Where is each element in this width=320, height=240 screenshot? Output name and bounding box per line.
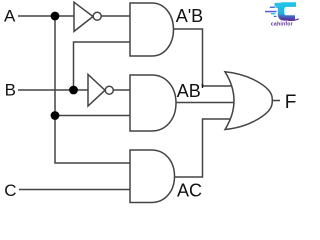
- watermark logo speed line 1b: [276, 7, 279, 8]
- junction dot on B wire: [69, 86, 78, 95]
- svg-text:A: A: [4, 7, 16, 26]
- wire AND2 output to OR middle input: [176, 102, 234, 104]
- svg-text:cahinfor: cahinfor: [271, 22, 293, 28]
- watermark logo speed line 2: [265, 11, 277, 13]
- wire AND3 output to OR bottom input: [175, 119, 233, 177]
- OR gate: [225, 72, 272, 130]
- svg-text:AB': AB': [177, 81, 204, 101]
- watermark logo speed line 4: [274, 16, 277, 17]
- wire NOT2 output to AND2: [114, 89, 131, 91]
- AND gate 2 (AB'): [130, 75, 176, 131]
- watermark logo C mark: [278, 2, 296, 20]
- watermark logo speed line 1a: [270, 7, 275, 8]
- wire A input: [18, 15, 74, 17]
- watermark logo top bar tail: [275, 3, 281, 7]
- svg-text:C: C: [4, 181, 16, 200]
- watermark logo bottom swoosh: [288, 18, 299, 21]
- wire B input: [18, 89, 88, 91]
- watermark logo speed line 3: [271, 13, 275, 14]
- svg-text:B: B: [5, 81, 16, 100]
- AND gate 1 (A'B): [130, 3, 174, 56]
- wire NOT1 output to AND1: [101, 15, 130, 17]
- wire B branch up to AND1: [74, 42, 131, 90]
- svg-text:A'B: A'B: [176, 6, 203, 26]
- wire C input: [19, 189, 130, 191]
- svg-text:F: F: [285, 92, 297, 113]
- inverter NOT1 triangle: [74, 2, 93, 31]
- AND gate 3 (AC): [130, 150, 175, 203]
- wire A branch to AND2: [55, 115, 130, 117]
- wire A vertical bus down to AND3: [55, 16, 130, 163]
- wire AND1 output to OR top input: [174, 29, 233, 86]
- junction dot on A vertical bus: [51, 111, 60, 120]
- inverter NOT2 bubble: [105, 86, 113, 94]
- svg-text:AC: AC: [177, 181, 202, 201]
- inverter NOT2 triangle: [88, 75, 105, 107]
- wire F output: [271, 100, 280, 102]
- inverter NOT1 bubble: [93, 12, 101, 20]
- junction dot on A wire: [51, 12, 60, 21]
